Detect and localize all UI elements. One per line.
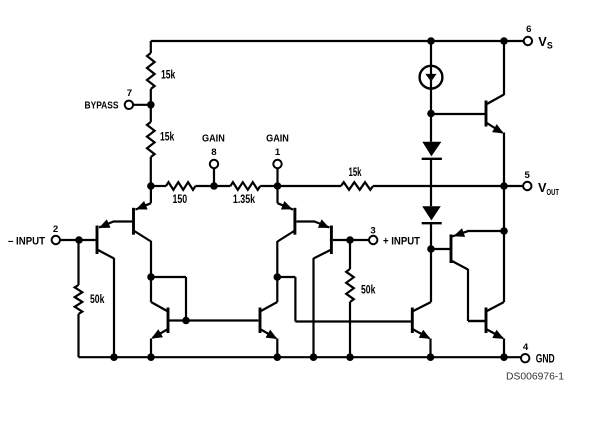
wire bypass stub xyxy=(133,104,151,106)
svg-text:150: 150 xyxy=(172,194,187,206)
node bypass junction xyxy=(147,101,155,109)
diode D1 xyxy=(422,142,441,156)
wire R1 to R2 through bypass node xyxy=(150,89,152,122)
wire Q6 collector to Q8 base xyxy=(451,261,468,270)
pin 6 terminal VS xyxy=(524,37,532,45)
svg-text:2: 2 xyxy=(53,224,58,235)
wire node to R3 xyxy=(151,185,166,187)
svg-text:50k: 50k xyxy=(90,294,105,306)
node rail Q3 collector xyxy=(310,353,318,361)
node first stage left junction xyxy=(147,273,155,281)
node Q6 base junction xyxy=(427,245,435,253)
wire Q8 emitter to rail xyxy=(503,339,505,358)
svg-text:4: 4 xyxy=(523,342,529,353)
node gain pin1 junction xyxy=(274,182,282,190)
pin 5 terminal VOUT xyxy=(523,182,531,190)
wire gain1 node to R5 xyxy=(278,185,342,187)
transistor Q1 xyxy=(96,226,99,255)
wire R4 to gain1 node xyxy=(260,185,277,187)
node Q6 emitter junction on vout line xyxy=(500,227,508,235)
svg-text:+ INPUT: + INPUT xyxy=(383,235,420,247)
wire ground rail xyxy=(79,356,522,358)
node pin2 junction with 50k xyxy=(75,236,83,244)
node top rail / Q5 collector junction xyxy=(500,37,508,45)
wire pin3 to Q3 base xyxy=(333,239,369,241)
svg-text:GAIN: GAIN xyxy=(202,133,225,144)
pin 8 terminal GAIN xyxy=(213,168,215,186)
wire D1 to D2 crossing vout line xyxy=(430,159,432,206)
transistor Q8 xyxy=(485,308,488,334)
svg-text:3: 3 xyxy=(370,225,375,236)
transistor Q3 xyxy=(330,226,333,255)
node rail Q8 emitter xyxy=(500,353,508,361)
node rail Q7 emitter xyxy=(427,353,435,361)
wire Q2 emitter from gain node xyxy=(150,186,152,203)
wire R5 to vout node xyxy=(373,185,504,187)
wire Q4 emitter from gain1 node xyxy=(276,186,278,203)
node left end of gain network xyxy=(147,182,155,190)
svg-text:5: 5 xyxy=(525,170,531,181)
svg-text:1.35k: 1.35k xyxy=(233,194,256,206)
wire Q5 collector to rail xyxy=(503,41,505,95)
transistor Q10 mirror right xyxy=(259,308,262,334)
wire vout stub xyxy=(504,185,523,187)
node rail Q1 collector xyxy=(110,353,118,361)
node gain pin8 junction xyxy=(210,182,218,190)
diode D2 xyxy=(422,206,441,220)
wire Q3 emitter to Q4 base xyxy=(296,220,315,222)
resistor R1 15k upper xyxy=(147,53,155,89)
svg-text:BYPASS: BYPASS xyxy=(85,101,119,112)
wire Q4 collector down to mirror xyxy=(276,241,278,302)
svg-text:GAIN: GAIN xyxy=(266,133,289,144)
svg-text:50k: 50k xyxy=(361,285,376,297)
svg-text:GND: GND xyxy=(536,351,555,365)
node rail Q9 emitter xyxy=(147,353,155,361)
wire Q1 collector to ground rail xyxy=(113,258,115,357)
resistor R2 15k lower xyxy=(147,122,155,157)
wire Q1 emitter to Q2 base xyxy=(113,220,132,222)
pin 7 terminal BYPASS xyxy=(125,101,133,109)
wire Q6 emitter xyxy=(467,230,504,232)
wire R2 to gain node row xyxy=(150,157,152,186)
transistor Q4 xyxy=(293,208,296,235)
svg-text:1: 1 xyxy=(275,147,281,158)
wire diode-connect tie xyxy=(151,276,186,278)
node top rail / current source junction xyxy=(427,37,435,45)
transistor Q9 mirror left xyxy=(167,308,170,334)
svg-text:15k: 15k xyxy=(349,167,362,179)
pin 4 terminal GND xyxy=(521,354,529,362)
svg-text:DS006976-1: DS006976-1 xyxy=(506,371,564,382)
resistor R7 50k right xyxy=(349,240,351,269)
node vout junction xyxy=(500,182,508,190)
wire Q3 collector to ground rail xyxy=(312,258,314,357)
pin 1 terminal GAIN xyxy=(276,168,278,186)
wire mirror base rail xyxy=(168,319,258,321)
svg-text:6: 6 xyxy=(526,24,531,35)
wire vout node down to Q8 collector xyxy=(503,186,505,302)
svg-text:15k: 15k xyxy=(160,132,175,144)
wire from top rail to R1 xyxy=(150,41,152,53)
node rail 50k right xyxy=(346,353,354,361)
wire R3 to gain8 node xyxy=(196,185,231,187)
wire Q9 emitter to rail xyxy=(150,339,152,358)
resistor R4 1.35k xyxy=(230,182,260,190)
node Q5 base junction xyxy=(427,110,435,118)
wire first stage output to Q7 base xyxy=(277,276,295,278)
resistor R6 50k left xyxy=(77,240,79,285)
svg-text:8: 8 xyxy=(211,147,217,158)
node rail Q10 emitter xyxy=(274,353,282,361)
pin 3 terminal +INPUT xyxy=(369,236,377,244)
node pin3 junction with 50k xyxy=(346,236,354,244)
wire Q5 emitter to vout node xyxy=(503,133,505,187)
transistor Q6 xyxy=(450,235,453,264)
transistor Q5 xyxy=(485,101,488,127)
node first stage right junction xyxy=(274,273,282,281)
wire rail through current source to Q5 base node xyxy=(430,41,432,142)
svg-text:15k: 15k xyxy=(161,69,176,81)
resistor R5 15k feedback xyxy=(341,182,373,190)
pin 2 terminal -INPUT xyxy=(52,236,60,244)
wire Q7 emitter to rail xyxy=(429,339,431,358)
wire D2 to Q7 collector xyxy=(430,223,432,302)
transistor Q2 xyxy=(132,208,135,235)
node mirror base tie junction xyxy=(182,317,190,325)
wire pin2 to Q1 base xyxy=(60,239,96,241)
wire Q2 collector down to mirror xyxy=(150,241,152,302)
svg-text:7: 7 xyxy=(127,88,132,99)
current source I1 xyxy=(420,66,443,89)
transistor Q7 xyxy=(411,308,414,334)
svg-text:– INPUT: – INPUT xyxy=(8,235,45,247)
wire Q10 emitter to rail xyxy=(276,339,278,358)
wire top supply rail xyxy=(151,40,524,42)
resistor R3 150 xyxy=(166,182,196,190)
